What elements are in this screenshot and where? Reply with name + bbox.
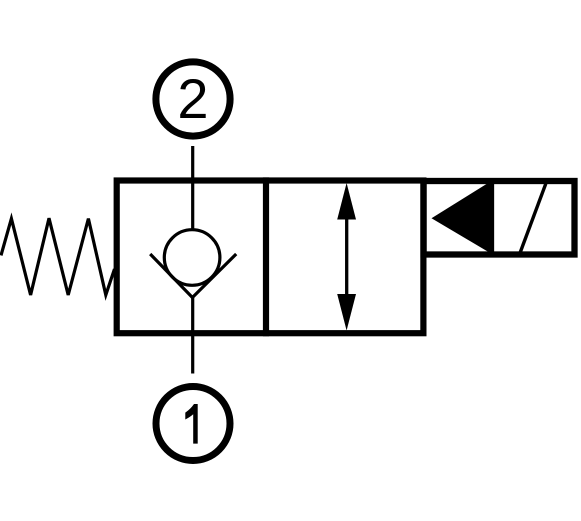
- svg-text:2: 2: [177, 67, 208, 130]
